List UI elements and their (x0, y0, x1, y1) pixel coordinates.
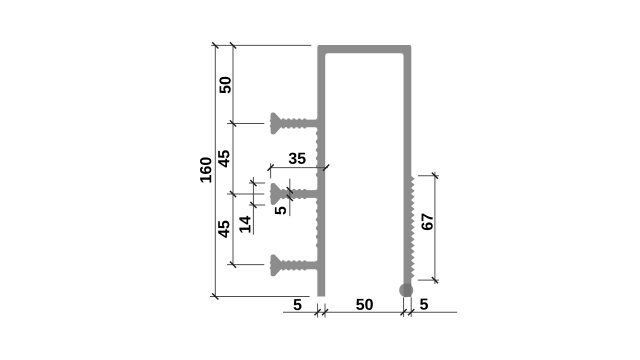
tick 67 bottom (432, 277, 438, 283)
extension line, left wall inner face (324, 304, 326, 318)
profile left-edge serration nubs (316, 131, 318, 248)
tick bottom 5 right (322, 309, 328, 315)
label 35 arm reach (289, 153, 306, 164)
tick 67 top (432, 173, 438, 179)
profile anchor arm 3 (bottom) (271, 254, 319, 276)
tick 35 left (268, 165, 274, 171)
label 5 right wall (420, 299, 428, 310)
label 160 overall height (200, 157, 211, 182)
profile anchor arm 1 (top) (271, 113, 319, 135)
dimension line 67 (serrated length) (434, 172, 436, 284)
profile channel body (317, 45, 411, 296)
extension line, right wall inner face (403, 297, 405, 317)
tick 5 arm bottom (287, 195, 293, 201)
label 5 left wall (294, 299, 302, 310)
tick 14 top (250, 180, 256, 186)
label 45 lower segment (218, 221, 229, 238)
extension line, arm 2 centre (227, 193, 264, 195)
tick bottom 5 left (315, 309, 321, 315)
extension line, arm tip (35 left end) (270, 163, 272, 178)
dimension chain line 50/45/45 (232, 45, 234, 264)
tick bottom right 5 right (408, 309, 414, 315)
tick chain arm1 (230, 120, 236, 126)
profile anchor arm 2 (middle) (271, 183, 319, 205)
dimension line 5 (arm thickness) (289, 179, 291, 216)
extension line, left wall outer face (317, 304, 319, 318)
tick chain arm2 (230, 191, 236, 197)
extension line, arm 1 centre (227, 122, 264, 124)
tick 160 top (212, 42, 218, 48)
tick 160 bottom (212, 293, 218, 299)
tick 5 arm top (287, 187, 293, 193)
extension line, right wall outer face (410, 297, 412, 317)
dimension line 35 (271, 167, 328, 169)
tick chain top (230, 42, 236, 48)
tick 14 bottom (250, 202, 256, 208)
extension line, arm 3 centre (227, 264, 264, 266)
label 14 flare height (239, 216, 250, 233)
profile bottom circular bulge (399, 283, 413, 297)
profile right-edge saw teeth (411, 176, 415, 279)
dimension line bottom 5/50/5 (283, 311, 457, 313)
darker overlap of wall over bulge (404, 284, 412, 297)
tick bottom right 5 left (400, 309, 406, 315)
label 45 upper segment (218, 150, 229, 167)
tick chain arm3 (230, 262, 236, 268)
dimension line 14 (flare height) (252, 177, 254, 235)
extension line, profile top edge (211, 44, 311, 46)
extension line, flare top (14) (249, 182, 265, 184)
tick 35 right (323, 165, 329, 171)
extension line, profile bottom edge (210, 295, 310, 297)
label 50 top segment (219, 77, 230, 94)
label 50 channel width (356, 299, 373, 310)
dimension line 160 (overall height) (214, 45, 216, 296)
label 67 serrated length (421, 214, 432, 231)
extension line, serration bottom (67) (418, 279, 439, 281)
extension line, flare bottom (14) (249, 204, 265, 206)
label 5 arm thickness (275, 207, 286, 215)
extension line, serration top (67) (418, 175, 439, 177)
